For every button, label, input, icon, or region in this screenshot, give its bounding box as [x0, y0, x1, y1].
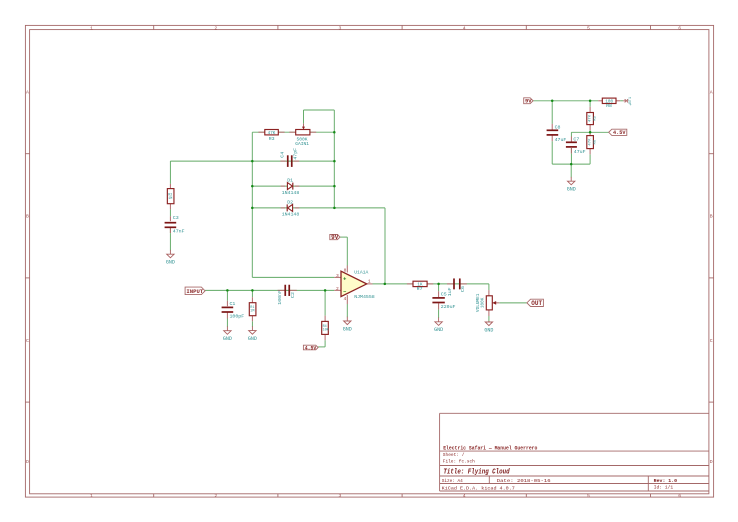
svg-text:100nF: 100nF	[277, 290, 283, 305]
svg-text:220uF: 220uF	[441, 304, 456, 310]
svg-text:Size: A4: Size: A4	[442, 478, 463, 484]
svg-text:1N4148: 1N4148	[282, 212, 300, 218]
svg-text:B: B	[710, 214, 713, 220]
svg-text:GND: GND	[567, 187, 576, 193]
svg-text:C: C	[26, 338, 29, 344]
svg-text:+: +	[343, 276, 346, 282]
svg-text:1M: 1M	[168, 197, 172, 201]
svg-text:6: 6	[678, 25, 681, 31]
svg-text:3: 3	[336, 273, 339, 279]
svg-text:C6: C6	[460, 286, 466, 292]
svg-text:8: 8	[344, 268, 347, 274]
svg-text:C1: C1	[230, 301, 236, 307]
svg-text:−: −	[343, 289, 346, 295]
svg-text:GND: GND	[484, 327, 493, 333]
svg-text:A: A	[710, 89, 713, 95]
svg-text:D2: D2	[287, 199, 293, 205]
svg-text:1: 1	[90, 25, 93, 31]
svg-text:47nF: 47nF	[173, 229, 185, 235]
svg-text:Electric Safari — Manuel Guerr: Electric Safari — Manuel Guerrero	[443, 445, 537, 451]
svg-text:C2: C2	[290, 292, 296, 298]
svg-text:47uF: 47uF	[574, 149, 586, 155]
svg-text:R6: R6	[594, 139, 598, 144]
svg-text:3: 3	[339, 25, 342, 31]
svg-text:2: 2	[214, 493, 217, 499]
svg-text:Date: 2018-05-16: Date: 2018-05-16	[497, 478, 551, 484]
svg-text:File: fc.sch: File: fc.sch	[443, 458, 475, 464]
svg-text:D1: D1	[287, 177, 293, 183]
svg-text:Title: Flying Cloud: Title: Flying Cloud	[443, 468, 510, 476]
svg-text:5: 5	[587, 493, 590, 499]
svg-text:R7: R7	[417, 286, 423, 292]
svg-text:47K: 47K	[588, 138, 592, 146]
svg-text:100pF: 100pF	[230, 314, 245, 320]
svg-text:1M: 1M	[250, 310, 254, 314]
svg-text:NJM4558: NJM4558	[354, 294, 375, 300]
svg-text:GND: GND	[166, 260, 175, 266]
svg-text:BT1: BT1	[629, 96, 633, 104]
svg-text:100K: 100K	[481, 297, 486, 308]
svg-text:1: 1	[368, 279, 371, 285]
svg-text:D: D	[710, 459, 713, 465]
svg-text:GND: GND	[343, 326, 352, 332]
svg-text:C7: C7	[573, 136, 579, 142]
svg-text:GND: GND	[434, 327, 443, 333]
svg-text:KiCad E.D.A. kicad 4.0.7: KiCad E.D.A. kicad 4.0.7	[442, 485, 515, 491]
svg-text:2: 2	[214, 25, 217, 31]
svg-text:47pF: 47pF	[292, 148, 298, 160]
svg-text:GAIN1: GAIN1	[295, 141, 309, 147]
svg-text:47uF: 47uF	[555, 137, 567, 143]
svg-text:D: D	[26, 459, 29, 465]
svg-text:9V: 9V	[331, 234, 339, 241]
svg-text:4.5V: 4.5V	[305, 345, 317, 351]
svg-text:C: C	[710, 338, 713, 344]
svg-text:C4: C4	[279, 152, 285, 158]
svg-text:OUT: OUT	[531, 300, 542, 307]
svg-text:3: 3	[339, 493, 342, 499]
svg-text:1uF: 1uF	[447, 287, 453, 296]
svg-text:C5: C5	[441, 292, 447, 298]
svg-text:Id: 1/1: Id: 1/1	[654, 484, 674, 490]
svg-text:4.5V: 4.5V	[613, 130, 626, 136]
svg-text:INPUT: INPUT	[186, 288, 203, 295]
svg-text:R5: R5	[594, 116, 598, 121]
svg-text:Sheet: /: Sheet: /	[443, 452, 465, 458]
svg-text:2: 2	[336, 286, 339, 292]
svg-text:6: 6	[678, 493, 681, 499]
svg-text:R3: R3	[269, 136, 275, 142]
svg-text:GND: GND	[248, 336, 257, 342]
svg-text:4: 4	[344, 296, 347, 302]
svg-text:47K: 47K	[268, 131, 276, 136]
svg-text:B: B	[26, 214, 29, 220]
svg-text:9V: 9V	[525, 98, 532, 105]
svg-text:4: 4	[463, 493, 466, 499]
svg-text:1N4148: 1N4148	[282, 190, 300, 196]
svg-text:Rev: 1.0: Rev: 1.0	[654, 478, 678, 484]
svg-text:U1A1A: U1A1A	[354, 269, 368, 275]
svg-text:5: 5	[587, 25, 590, 31]
svg-text:C3: C3	[173, 215, 179, 221]
svg-text:R8: R8	[606, 103, 612, 109]
svg-text:4: 4	[463, 25, 466, 31]
svg-text:10K: 10K	[323, 328, 330, 332]
svg-text:GND: GND	[223, 336, 232, 342]
svg-text:47K: 47K	[588, 114, 592, 122]
svg-text:1: 1	[90, 493, 93, 499]
svg-text:C8: C8	[555, 124, 561, 130]
svg-text:A: A	[26, 89, 29, 95]
